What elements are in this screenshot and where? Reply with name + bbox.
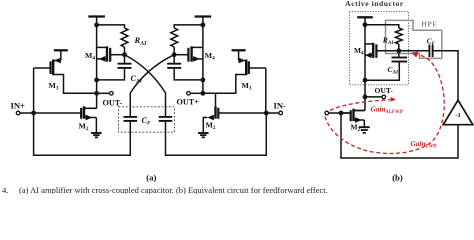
power VDD tick for M3 left xyxy=(54,49,68,51)
box dashed around C_F xyxy=(118,107,174,132)
terminal OUT+ circle xyxy=(187,92,191,96)
transistor M2 right NMOS (gate on right) xyxy=(214,106,216,118)
node OUT- b junction xyxy=(363,95,368,100)
wire OUT- b stub xyxy=(365,96,382,98)
node OUT- junction xyxy=(94,91,99,96)
node gate-left (R/C junction) xyxy=(122,52,127,57)
power VDD symbol right xyxy=(195,15,212,17)
red feedforward arrow to OUT- xyxy=(330,100,390,111)
transistor M2 b NMOS xyxy=(354,110,366,112)
wire inverter bottom to rail and around to IN node xyxy=(341,113,458,158)
transistor M2 left NMOS xyxy=(84,107,97,109)
svg-text:OUT-: OUT- xyxy=(103,98,123,107)
node gate-b junction xyxy=(396,48,401,53)
wire cross-couple from right gate node to left C_F cap xyxy=(130,55,174,116)
wire resistor bottom to right gate node xyxy=(173,47,175,55)
power VDD tick for M3 right xyxy=(232,49,246,51)
capacitor C_AI b xyxy=(398,51,400,57)
box dashed active inductor xyxy=(349,12,408,85)
wire M3-right drain down to OUT+ level xyxy=(203,75,246,94)
svg-text:HPF: HPF xyxy=(421,20,437,28)
resistor R_AI b xyxy=(395,28,402,44)
ground M2 b xyxy=(359,126,370,128)
op-amp inverter -1 triangle xyxy=(443,100,473,125)
wire M2-right source to ground xyxy=(203,118,207,134)
wire IN- to node xyxy=(266,112,279,114)
wire M3-left drain to OUT- node xyxy=(53,75,96,94)
resistor R_AI left xyxy=(121,28,128,47)
wire IN+ column up to M3 gate xyxy=(33,68,35,113)
svg-text:IN+: IN+ xyxy=(11,101,26,111)
ground M2 left xyxy=(91,132,102,134)
svg-text:IN-: IN- xyxy=(274,101,287,111)
capacitor C_AI right xyxy=(173,55,175,63)
wire VDD-b stem down xyxy=(364,17,366,110)
terminal IN- circle xyxy=(279,111,283,115)
red feedforward big loop curve xyxy=(325,55,444,154)
wire IN-b to node xyxy=(329,112,341,114)
box gray HPF outline xyxy=(386,20,442,58)
node C_AI-b bottom junction xyxy=(363,78,368,83)
svg-text:OUT-: OUT- xyxy=(375,86,394,95)
resistor R_AI right xyxy=(171,28,178,47)
node C_AI-right bottom junction xyxy=(201,78,206,83)
wire OUT+ stub xyxy=(190,92,203,94)
capacitor C_F left plates xyxy=(124,116,138,118)
svg-text:Active inductor: Active inductor xyxy=(345,0,404,8)
node IN- junction xyxy=(264,111,269,116)
wire VDD-right stem down xyxy=(202,17,204,94)
wire tap to R_AI-b top xyxy=(365,25,399,28)
power VDD symbol b xyxy=(357,16,373,18)
node C_AI-left bottom junction xyxy=(94,78,99,83)
wire VDD-left stem down to M4 drain column xyxy=(96,17,98,109)
terminal IN+ circle xyxy=(16,111,20,115)
transistor M3 left PMOS xyxy=(60,50,62,60)
terminal IN b circle xyxy=(325,111,329,115)
transistor M4 b (gate on right) xyxy=(372,43,374,58)
wire VDD tap to R_AI top xyxy=(97,25,125,28)
capacitor C_F right plates xyxy=(159,116,173,118)
wire M2-left source to ground xyxy=(95,118,97,134)
wire cross-couple from left gate node to right C_F cap xyxy=(125,55,166,116)
wire C_F-b from node to cap xyxy=(399,50,429,52)
node VDD-left tap xyxy=(94,23,99,28)
wire M2-right drain tap xyxy=(215,93,217,106)
terminal OUT- circle xyxy=(110,92,114,96)
svg-text:4. (a) AI amplifier with c: 4. (a) AI amplifier with cross-coupled c… xyxy=(2,185,328,194)
ground M2 right xyxy=(198,132,209,134)
wire IN+ column down to bottom rail and C_F left xyxy=(34,113,131,155)
capacitor C_AI left xyxy=(124,55,126,63)
terminal OUT- b circle xyxy=(382,95,386,99)
transistor M4 left (gate on right) xyxy=(106,46,108,61)
transistor M4 right (gate on left) xyxy=(190,46,192,61)
wire VDD tap to R right top xyxy=(174,25,203,28)
node VDD-right tap xyxy=(201,23,206,28)
wire IN- column up to M3 gate xyxy=(265,68,267,113)
wire R_AI bottom to gate node xyxy=(124,47,126,55)
node IN+ junction xyxy=(31,111,36,116)
wire IN+ to node xyxy=(20,112,34,114)
svg-text:OUT+: OUT+ xyxy=(177,97,200,106)
capacitor C_F b vertical plates xyxy=(428,45,430,57)
wire R_AI-b bottom to node xyxy=(398,44,400,51)
node IN-b junction xyxy=(339,111,344,116)
wire C_F-b to inverter apex xyxy=(434,51,458,100)
svg-text:(a): (a) xyxy=(146,172,156,182)
wire M2-b source to ground xyxy=(363,120,365,127)
wire OUT- stub xyxy=(97,92,110,94)
wire C_F right cap down to bottom rail to IN- xyxy=(166,113,267,155)
svg-text:(b): (b) xyxy=(392,172,403,182)
node OUT+ junction xyxy=(201,91,206,96)
node VDD-b tap xyxy=(363,22,368,27)
svg-text:-1: -1 xyxy=(455,112,460,119)
wire IN-b node to M2 gate xyxy=(341,112,351,114)
node gate-right junction xyxy=(172,52,177,57)
transistor M3 right PMOS xyxy=(238,50,240,60)
power VDD symbol left xyxy=(88,15,105,17)
